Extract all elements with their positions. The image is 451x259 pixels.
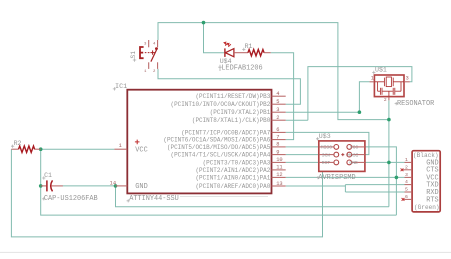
svg-text:VCC: VCC: [350, 145, 359, 151]
pin 1 stub: [114, 148, 127, 150]
switch S1 contact and lever: [155, 47, 158, 50]
wire: TXD line: [345, 184, 404, 186]
svg-text:(PCINT3/T0/ADC3)PA3: (PCINT3/T0/ADC3)PA3: [203, 159, 271, 166]
svg-text:U$3: U$3: [319, 133, 331, 140]
C1 left junction: [39, 184, 43, 188]
svg-text:(PCINT1/AIN0/ADC1)PA1: (PCINT1/AIN0/ADC1)PA1: [195, 174, 270, 181]
svg-text:(Green): (Green): [414, 204, 440, 211]
wire: PA3 row to ISP RST: [286, 161, 319, 163]
LED U$4 triangle: [225, 49, 234, 57]
resonator crystal and caps: [374, 77, 404, 97]
wire: R2 left down, bottom rail, up to ISP RST pad column: [11, 149, 322, 237]
ISP pad labels: [321, 145, 359, 167]
svg-text:RTS: RTS: [426, 196, 438, 204]
svg-text:(PCINT9/XTAL2)PB1: (PCINT9/XTAL2)PB1: [210, 109, 271, 116]
IC1 ATTINY44-SSU box: [127, 90, 271, 194]
VCC net junction at FTDI: [395, 176, 399, 180]
svg-text:(PCINT6/OC1A/SDA/MOSI/ADC6)PA6: (PCINT6/OC1A/SDA/MOSI/ADC6)PA6: [163, 137, 270, 144]
svg-text:LEDFAB1206: LEDFAB1206: [221, 64, 262, 72]
switch S1 pin 4 stub: [157, 40, 159, 47]
switch S1 cross marker: [150, 50, 154, 54]
right pin numbers: [276, 91, 282, 187]
svg-text:2: 2: [405, 164, 408, 170]
switch S1 dashed link: [145, 52, 150, 54]
svg-text:1: 1: [371, 76, 374, 82]
wire: ISP GND row to FTDI GND: [365, 161, 405, 163]
LED U$4 emission arrows: [225, 43, 231, 47]
wire: PA1 row to FTDI VCC: [286, 176, 405, 178]
switch S1 pin 2 stub: [157, 62, 159, 69]
svg-text:5: 5: [405, 187, 408, 193]
C1 right / pin14 junction: [114, 184, 118, 188]
wire: resonator pin 2 GND drop: [388, 100, 390, 206]
wire: R2 right to IC pin 1: [41, 148, 115, 150]
svg-text:10: 10: [276, 157, 282, 163]
svg-text:U$1: U$1: [375, 67, 387, 74]
resonator pin 1 stub: [370, 81, 375, 83]
resistor R1: [248, 50, 264, 56]
ISP pad stubs: [319, 147, 365, 163]
svg-text:14: 14: [110, 180, 116, 186]
svg-text:MOSI: MOSI: [347, 152, 358, 158]
svg-text:4: 4: [405, 179, 408, 185]
svg-text:2: 2: [384, 97, 387, 103]
wire: PA0 row: [286, 185, 346, 187]
wire: C1 right to pin 14 junction: [63, 185, 117, 187]
ISP origin cross: [341, 153, 344, 156]
resistor R2: [19, 146, 35, 152]
wire: PA4 row to ISP SCK: [286, 154, 319, 156]
svg-text:1: 1: [405, 157, 408, 163]
svg-text:5: 5: [276, 99, 279, 105]
wire: PB1 row to resonator pin 1: [286, 82, 370, 112]
switch S1 actuator bracket: [140, 47, 144, 58]
faint gray underline: [180, 196, 268, 198]
svg-text:6: 6: [276, 127, 279, 133]
svg-text:1: 1: [119, 143, 122, 149]
wire: PB0 row: [286, 119, 308, 121]
FTDI pin numbers: [405, 157, 408, 200]
svg-text:IC1: IC1: [115, 83, 127, 91]
svg-text:13: 13: [276, 181, 282, 187]
svg-text:(PCINT5/OC1B/MISO/DO/ADC5)PA5: (PCINT5/OC1B/MISO/DO/ADC5)PA5: [167, 144, 271, 151]
right pin stubs: [272, 95, 286, 97]
wire: resonator pin 3 over the top to PB0 row: [308, 67, 412, 121]
switch S1 pin 3 stub: [148, 40, 150, 47]
svg-text:(PCINT4/T1/SCL/USCK/ADC4)PA4: (PCINT4/T1/SCL/USCK/ADC4)PA4: [171, 152, 271, 159]
resonator pin 2 stub: [388, 97, 390, 101]
svg-text:3: 3: [406, 76, 409, 82]
svg-text:(PCINT2/AIN1/ADC2)PA2: (PCINT2/AIN1/ADC2)PA2: [195, 167, 270, 174]
svg-text:(PCINT10/INT0/OC0A/CKOUT)PB2: (PCINT10/INT0/OC0A/CKOUT)PB2: [171, 101, 271, 108]
wire: TXD/RXD vertical: [344, 185, 346, 192]
svg-text:(PCINT7/ICP/OC0B/ADC7)PA7: (PCINT7/ICP/OC0B/ADC7)PA7: [181, 129, 271, 136]
svg-text:VCC: VCC: [135, 146, 147, 154]
svg-text:RESONATOR: RESONATOR: [397, 100, 434, 108]
svg-text:GND: GND: [349, 160, 358, 166]
capacitor C1 plates: [46, 180, 48, 191]
svg-text:S1: S1: [130, 51, 137, 59]
wire: R1 right down to PA6 row: [271, 53, 294, 140]
svg-text:(PCINT11/RESET/DW)PB3: (PCINT11/RESET/DW)PB3: [195, 93, 270, 100]
svg-text:ATTINY44-SSU: ATTINY44-SSU: [129, 195, 179, 203]
LED U$4 cathode bar: [224, 48, 226, 57]
wire: GND rail under IC: [116, 186, 389, 207]
wire: RXD line: [345, 191, 404, 193]
svg-text:RST: RST: [322, 160, 331, 166]
pin 14 stub: [116, 185, 128, 187]
wire: switch pin2 down and right to PB2 row: [158, 69, 300, 104]
ISP header U$3 box: [319, 141, 365, 172]
svg-text:AVRISPSMD: AVRISPSMD: [318, 174, 355, 182]
svg-text:(Black): (Black): [413, 152, 439, 159]
resistor R2 leads: [11, 148, 18, 150]
svg-text:(PCINT8/XTAL1)/CLK)PB0: (PCINT8/XTAL1)/CLK)PB0: [192, 117, 271, 124]
FTDI connector box: [412, 151, 440, 212]
FTDI pin stubs: [402, 162, 412, 199]
svg-text:SCK: SCK: [322, 152, 331, 158]
wire: VCC junction down past C1 to bottom VCC rail: [41, 149, 397, 215]
GND net junction: [387, 161, 391, 165]
wire: junction drop to LED anode: [204, 23, 225, 53]
ISP pads: [334, 145, 352, 165]
bottom frame line: [0, 251, 451, 253]
svg-text:8: 8: [276, 142, 279, 148]
svg-text:3: 3: [405, 172, 408, 178]
svg-text:9: 9: [276, 149, 279, 155]
FTDI unconnected pin crosses: [401, 168, 404, 171]
resonator pin 3 stub: [404, 81, 410, 83]
svg-text:12: 12: [276, 172, 282, 178]
svg-text:2: 2: [276, 115, 279, 121]
switch S1 pin 1 stub: [148, 62, 150, 69]
svg-text:6: 6: [405, 194, 408, 200]
svg-text:R2: R2: [14, 140, 22, 147]
wire: PA7 row to ISP MOSI: [286, 132, 369, 154]
svg-text:7: 7: [276, 134, 279, 140]
wire: PA5 row to ISP MISO: [286, 146, 319, 148]
svg-text:4: 4: [276, 91, 279, 97]
FTDI labels: [413, 152, 440, 211]
svg-text:11: 11: [276, 165, 282, 171]
junction top net to GND drop: [387, 118, 391, 122]
svg-text:MISO: MISO: [321, 145, 332, 151]
capacitor C1 leads: [41, 185, 47, 187]
VCC plus marker: [135, 140, 140, 145]
svg-text:R1: R1: [245, 43, 253, 50]
svg-text:GND: GND: [135, 183, 147, 191]
R2/VCC junction: [39, 147, 43, 151]
right pin names: [163, 93, 270, 190]
svg-text:3: 3: [276, 107, 279, 113]
svg-text:CAP-US1206FAB: CAP-US1206FAB: [44, 195, 98, 203]
top junction: [202, 21, 206, 25]
PB1/resonator junction: [358, 110, 362, 114]
wire: ISP VCC right, down to VCC rail: [365, 147, 397, 215]
resonator U$1 box: [374, 75, 404, 97]
LED U$4 anode lead: [234, 52, 248, 54]
svg-text:(PCINT0/AREF/ADC0)PA0: (PCINT0/AREF/ADC0)PA0: [195, 183, 270, 190]
wire: top net from switch pin 4, down at right to GND-drop junction: [158, 23, 389, 120]
